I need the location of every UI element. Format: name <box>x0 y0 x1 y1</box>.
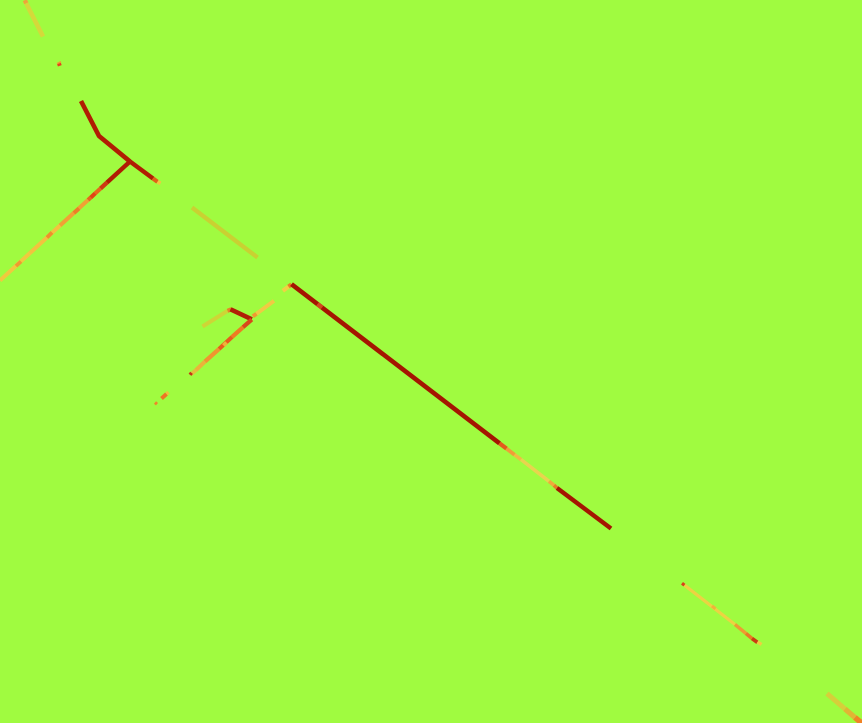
road: long mottled line from junction to left edge <box>0 162 130 281</box>
bird structure: mottled orange leg down-left <box>190 320 252 375</box>
road branch: junction to lower-right with orange/yellow tip <box>130 162 161 184</box>
road dash: small orange dot <box>59 62 60 66</box>
bird structure: dark red beak segment <box>231 309 252 319</box>
bird structure: olive left wing <box>203 309 232 326</box>
road dash: orange dash (below bird) <box>162 392 169 398</box>
road: olive yellow diagonal (center-left) <box>192 208 258 258</box>
road: long main dark red diagonal <box>292 284 612 528</box>
road: corner segment bottom-right <box>827 694 862 723</box>
road dash: short yellow segment top-left <box>25 0 43 36</box>
bird structure: warm yellow right wing <box>253 301 274 317</box>
road: yellow segment lower right <box>682 583 762 644</box>
road: dark red curve (upper left) <box>81 101 130 162</box>
connector: yellow-orange piece before peak <box>283 284 292 290</box>
mottle flecks on road <box>91 194 95 198</box>
road dash: tiny orange dot <box>155 403 157 405</box>
